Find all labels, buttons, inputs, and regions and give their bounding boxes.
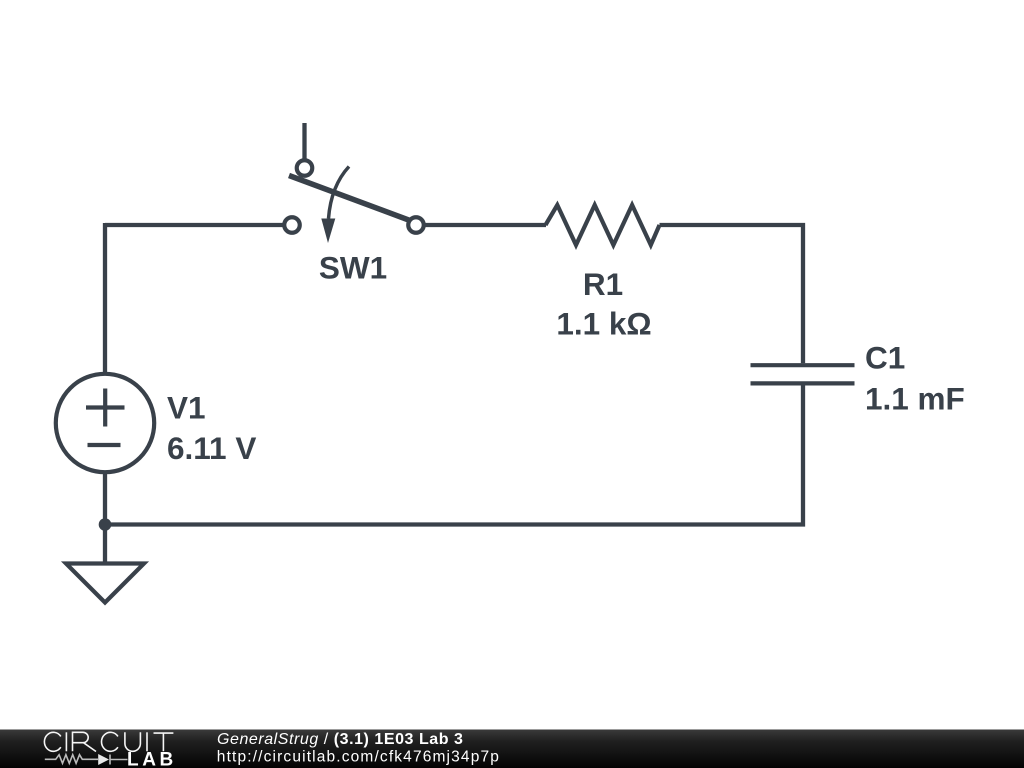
wire resistor to top-right corner and down to capacitor [660, 225, 804, 363]
SW1 arrowhead [321, 219, 335, 244]
V1 minus sign [88, 443, 121, 447]
svg-text:R1: R1 [583, 266, 623, 302]
logo resistor-diode squiggle wire [45, 755, 128, 765]
wire left vertical [103, 223, 107, 374]
SW1 terminal pin 2 (right) [408, 217, 424, 233]
wire switch to resistor [425, 223, 546, 227]
ground [66, 564, 144, 603]
svg-text:GeneralStrug / (3.1) 1E03 Lab: GeneralStrug / (3.1) 1E03 Lab 3 [217, 731, 464, 748]
svg-text:6.11 V: 6.11 V [167, 430, 256, 466]
svg-text:1.1 kΩ: 1.1 kΩ [556, 306, 651, 342]
capacitor C1 [751, 365, 855, 383]
SW1 terminal pin 1 (left) [284, 217, 300, 233]
voltage source V1 [56, 374, 154, 472]
svg-text:1.1 mF: 1.1 mF [865, 381, 965, 417]
wire capacitor bottom down and bottom horizontal [105, 385, 803, 524]
svg-text:SW1: SW1 [319, 250, 387, 286]
svg-text:V1: V1 [167, 390, 206, 426]
switch SW1 [284, 160, 424, 243]
logo CIRCUIT wordmark [44, 732, 173, 751]
logo diode triangle [98, 754, 109, 765]
resistor R1 [546, 205, 660, 245]
C1 bottom plate [751, 381, 855, 385]
V1 plus sign horizontal [86, 405, 125, 409]
svg-text:LAB: LAB [127, 750, 177, 768]
wire top-left horizontal [105, 223, 283, 227]
svg-text:C1: C1 [865, 340, 905, 376]
V1 circle body [56, 374, 154, 472]
svg-text:http://circuitlab.com/cfk476mj: http://circuitlab.com/cfk476mj34p7p [217, 749, 500, 766]
V1 plus sign vertical [103, 389, 107, 427]
SW1 actuation arc [329, 167, 350, 219]
wire switch top stub [302, 123, 306, 159]
SW1 terminal pin 3 (top throw) [297, 160, 313, 176]
node junction dot [99, 518, 112, 531]
SW1 blade [289, 176, 410, 221]
wire V1 bottom stub [103, 473, 107, 525]
wire ground stub [103, 525, 107, 564]
C1 top plate [751, 363, 855, 367]
